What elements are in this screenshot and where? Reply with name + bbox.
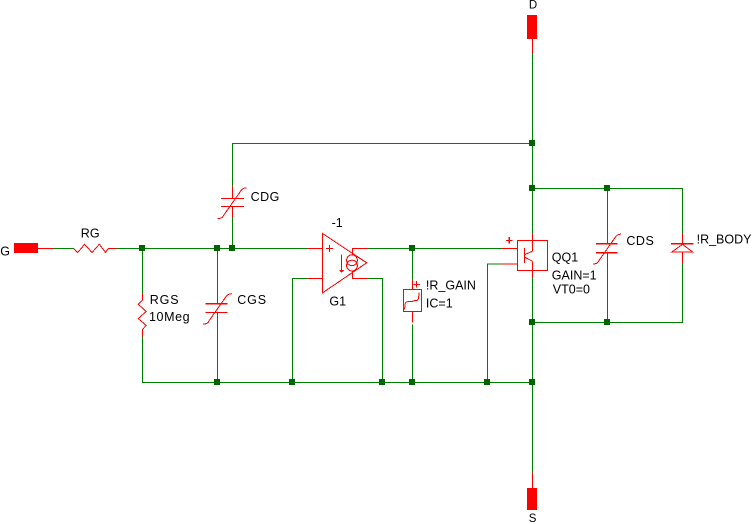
svg-text:10Meg: 10Meg — [149, 310, 190, 324]
svg-text:RG: RG — [81, 227, 100, 241]
wire: CGS column upper — [217, 248, 219, 294]
junction: G1 out / bottom rail — [379, 379, 385, 385]
wire: CDS column lower — [607, 263, 609, 323]
wire: CDG column upper — [232, 143, 234, 186]
op-amp / VCCS G1 — [307, 216, 367, 308]
nonlinear resistor !R_GAIN — [404, 278, 476, 322]
junction: G1 minus / bottom rail — [289, 379, 295, 385]
port D — [527, 0, 537, 53]
wire: G1 output to QQ1 base — [367, 248, 501, 250]
wire: loop top rail — [532, 188, 683, 190]
svg-text:G: G — [0, 244, 10, 258]
wire: CDG column lower — [232, 217, 234, 248]
svg-text:VT0=0: VT0=0 — [553, 282, 590, 296]
svg-text:!R_GAIN: !R_GAIN — [426, 278, 476, 292]
svg-text:CDS: CDS — [626, 234, 654, 248]
wire: QQ1 lower-left pin horizontal — [487, 263, 501, 265]
wire: G1 output bottom vertical to rail — [382, 278, 384, 383]
svg-text:CDG: CDG — [251, 190, 280, 204]
svg-text:GAIN=1: GAIN=1 — [552, 269, 597, 283]
port S — [527, 473, 537, 524]
wire: G1 output bottom horizontal — [367, 278, 383, 280]
capacitor CGS (nonlinear) — [203, 293, 267, 326]
svg-text:QQ1: QQ1 — [552, 250, 578, 264]
junction: D column / top rail — [529, 140, 535, 146]
wire: RG to G1 plus input — [117, 248, 308, 250]
junction: CGS / bottom rail — [214, 379, 220, 385]
junction: CDG node on main wire — [229, 245, 235, 251]
wire: diode column lower — [682, 263, 684, 323]
port G — [0, 243, 53, 258]
svg-text:IC=1: IC=1 — [426, 297, 453, 311]
wire: R_GAIN top — [412, 248, 414, 280]
wire: S column QQ1 bottom to port S — [532, 278, 534, 473]
wire: top rail CDG to D column — [232, 143, 533, 145]
wire: diode column upper — [682, 188, 684, 234]
wire: G1 minus vertical to rail — [292, 278, 294, 383]
wire: G port to RG — [53, 248, 74, 250]
wire: CGS column lower — [217, 326, 219, 383]
wire: CDS column upper — [607, 188, 609, 234]
wire: RGS column lower — [142, 336, 144, 383]
capacitor CDG (nonlinear) — [218, 186, 280, 218]
svg-text:-1: -1 — [332, 216, 343, 230]
junction: RGS node on main wire — [139, 245, 145, 251]
svg-text:CGS: CGS — [237, 293, 267, 307]
resistor RG — [73, 227, 116, 253]
wire: bottom rail — [142, 382, 533, 384]
svg-text:S: S — [529, 513, 537, 524]
wire: D column — [532, 53, 534, 233]
junction: QQ1 emitter / loop bottom — [529, 319, 535, 325]
svg-text:G1: G1 — [329, 294, 346, 308]
wire: QQ1 lower-left vertical to rail — [487, 264, 489, 383]
junction: D column / loop top — [529, 185, 535, 191]
svg-text:D: D — [529, 0, 537, 12]
junction: R_GAIN / bottom rail — [409, 379, 415, 385]
transistor QQ1 (subcircuit box) — [501, 233, 596, 296]
diode !R_BODY — [671, 233, 752, 264]
wire: G1 minus input horizontal — [292, 278, 307, 280]
junction: CDS / loop bottom — [604, 319, 610, 325]
svg-text:!R_BODY: !R_BODY — [697, 233, 753, 247]
junction: R_GAIN node on main wire — [409, 245, 415, 251]
junction: CDS / loop top — [604, 185, 610, 191]
capacitor CDS (nonlinear) — [593, 234, 655, 265]
wire: RGS column upper — [142, 248, 144, 293]
wire: R_GAIN bottom — [412, 325, 414, 383]
resistor RGS — [138, 293, 190, 337]
junction: QQ1 lower pin / bottom rail — [484, 379, 490, 385]
wire: loop bottom rail — [532, 322, 683, 324]
junction: CGS node on main wire — [214, 245, 220, 251]
junction: S column / bottom rail — [529, 379, 535, 385]
svg-text:RGS: RGS — [150, 293, 180, 307]
